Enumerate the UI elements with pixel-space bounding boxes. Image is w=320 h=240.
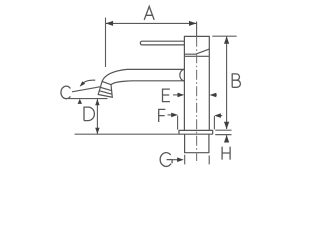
deck line right / H top tick xyxy=(215,134,231,136)
deck line left xyxy=(75,133,179,135)
B bottom tick xyxy=(215,129,231,131)
C slant line xyxy=(72,87,101,92)
dimension D xyxy=(68,99,108,134)
body left edge xyxy=(183,56,185,130)
centerline xyxy=(196,37,198,161)
dimension G xyxy=(160,153,172,167)
shank xyxy=(185,134,209,153)
dimension A xyxy=(106,18,197,67)
handle tilt seam xyxy=(184,49,209,54)
spout-body junction arc xyxy=(180,69,185,80)
flange bottom edge xyxy=(179,133,213,135)
spout tip xyxy=(98,81,112,97)
spout inner bend xyxy=(111,81,132,85)
dimension B xyxy=(226,36,228,129)
C curved leader arrow xyxy=(82,80,96,84)
spout tip seam xyxy=(100,87,111,90)
cap / handle body xyxy=(184,36,209,56)
dimension H xyxy=(226,135,228,142)
C angle arrow on baseline xyxy=(78,99,82,104)
dimension C xyxy=(61,86,70,99)
G tick left xyxy=(184,155,186,165)
spout tube bottom xyxy=(132,80,184,82)
B top tick xyxy=(212,35,236,37)
dimension F xyxy=(159,109,166,122)
G tick right xyxy=(208,156,210,165)
spout tube top xyxy=(127,68,184,70)
spout outer bend xyxy=(102,69,127,81)
base flange xyxy=(179,130,213,134)
dimension E xyxy=(163,89,170,102)
lever handle xyxy=(140,41,184,45)
body top line xyxy=(184,55,209,57)
body right edge xyxy=(208,56,210,130)
spout tip seam 2 xyxy=(99,91,112,94)
